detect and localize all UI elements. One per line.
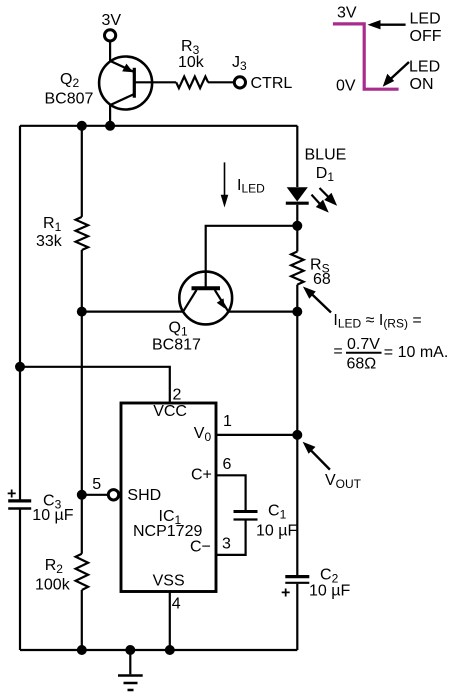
svg-text:VCC: VCC bbox=[153, 403, 187, 420]
svg-text:=: = bbox=[333, 343, 342, 360]
svg-text:5: 5 bbox=[92, 476, 101, 493]
svg-text:10 µF: 10 µF bbox=[256, 523, 297, 540]
svg-text:6: 6 bbox=[223, 456, 232, 473]
svg-text:OFF: OFF bbox=[410, 28, 442, 45]
svg-text:BC817: BC817 bbox=[152, 337, 201, 354]
svg-text:= 10 mA.: = 10 mA. bbox=[384, 344, 448, 361]
svg-text:NCP1729: NCP1729 bbox=[133, 523, 202, 540]
svg-text:1: 1 bbox=[223, 413, 232, 430]
svg-text:0.7V: 0.7V bbox=[347, 336, 380, 353]
svg-text:68: 68 bbox=[313, 271, 331, 288]
svg-text:3: 3 bbox=[222, 536, 231, 553]
svg-text:LED: LED bbox=[409, 59, 440, 76]
svg-text:3V: 3V bbox=[337, 5, 357, 22]
svg-text:68Ω: 68Ω bbox=[347, 356, 377, 373]
svg-text:+: + bbox=[281, 585, 290, 602]
svg-text:BLUE: BLUE bbox=[305, 147, 347, 164]
svg-text:2: 2 bbox=[173, 387, 182, 404]
svg-text:10 µF: 10 µF bbox=[32, 507, 73, 524]
svg-text:0V: 0V bbox=[336, 78, 356, 95]
svg-text:ON: ON bbox=[410, 76, 434, 93]
svg-text:10k: 10k bbox=[178, 54, 205, 71]
svg-text:CTRL: CTRL bbox=[251, 75, 293, 92]
svg-text:BC807: BC807 bbox=[45, 91, 94, 108]
svg-text:LED: LED bbox=[410, 11, 441, 28]
svg-text:C−: C− bbox=[190, 539, 211, 556]
svg-text:10 µF: 10 µF bbox=[309, 583, 350, 600]
svg-text:SHD: SHD bbox=[127, 487, 161, 504]
svg-text:3V: 3V bbox=[102, 12, 122, 29]
svg-text:100k: 100k bbox=[35, 577, 71, 594]
svg-text:33k: 33k bbox=[36, 233, 63, 250]
svg-text:4: 4 bbox=[172, 596, 181, 613]
svg-text:+: + bbox=[7, 486, 16, 503]
svg-text:C+: C+ bbox=[191, 467, 212, 484]
svg-text:VSS: VSS bbox=[153, 573, 185, 590]
